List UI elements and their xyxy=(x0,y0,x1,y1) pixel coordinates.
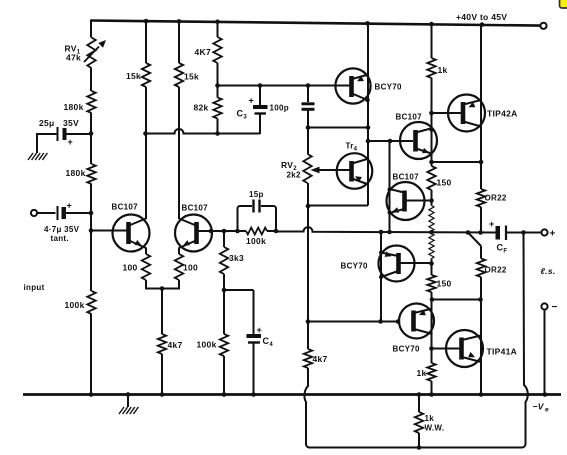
svg-text:1k: 1k xyxy=(438,65,448,75)
svg-text:W.W.: W.W. xyxy=(425,424,445,433)
svg-text:+: + xyxy=(67,201,73,211)
terminal output plus xyxy=(541,229,555,240)
capacitor 15p feedback xyxy=(238,190,277,231)
transistor BC107 driver upper xyxy=(396,113,438,160)
wire OR22 to output node xyxy=(480,207,482,233)
svg-text:47k: 47k xyxy=(66,53,81,63)
svg-text:BC107: BC107 xyxy=(396,113,423,122)
transistor TIP41A output lower xyxy=(446,330,517,367)
svg-text:3k3: 3k3 xyxy=(229,253,244,263)
svg-text:1k: 1k xyxy=(417,368,427,378)
wire BCY70 collector column xyxy=(365,75,370,206)
wire RV1 to 180k xyxy=(90,68,92,91)
wire 25u cap to ground xyxy=(37,133,58,153)
wire BCY70 collector node to output column xyxy=(432,297,483,302)
svg-text:2k2: 2k2 xyxy=(287,171,301,180)
wire RV2 bottom node xyxy=(306,183,311,208)
wire TIP42A base xyxy=(432,112,462,114)
svg-text:180k: 180k xyxy=(64,102,84,112)
svg-text:15k: 15k xyxy=(126,71,141,81)
resistor 100 left xyxy=(123,254,151,280)
svg-text:BC107: BC107 xyxy=(112,203,139,212)
wire 4k7 to 82k node xyxy=(215,63,220,98)
svg-text:OR22: OR22 xyxy=(485,194,507,203)
wire 1k lower to ground rail xyxy=(431,381,433,395)
wire driver emitter to TIP42A collector node xyxy=(432,160,484,165)
svg-text:input: input xyxy=(24,283,45,292)
resistor 150 middle upper xyxy=(429,206,434,232)
wire output to bottom loop xyxy=(524,233,528,445)
potentiometer RV2 2k2 xyxy=(281,154,312,183)
svg-text:25μ: 25μ xyxy=(39,118,55,128)
wire Tr4 emitter node horizontal xyxy=(308,205,368,207)
wire output node diagonal to OR22 lower xyxy=(468,233,481,259)
wire TIP41A base lead xyxy=(432,348,462,350)
wire BC107 base node to lower driver xyxy=(389,141,391,232)
transistor BCY70 first stage xyxy=(335,68,402,103)
wire 1k to TIP42A base node xyxy=(429,78,434,166)
label +40V to 45V xyxy=(456,12,507,22)
wire 100k lower to ground rail xyxy=(223,356,225,395)
wire input node to 100k xyxy=(90,231,92,292)
svg-text:+: + xyxy=(68,137,74,147)
capacitor 4.7u 35V tant input xyxy=(44,201,80,244)
svg-text:e: e xyxy=(545,407,549,414)
resistor 1k lower xyxy=(417,363,436,381)
transistor BCY70 second xyxy=(341,246,415,282)
wire supply to 1k xyxy=(431,23,433,58)
wire 180k junction to input cap junction xyxy=(90,134,92,165)
wire 100k to ground rail xyxy=(90,314,92,395)
wire 100k feedback to output line xyxy=(267,229,278,234)
transistor BC107 driver lower xyxy=(387,173,425,221)
svg-text:BCY70: BCY70 xyxy=(393,345,421,354)
wire BCY70 second base to 150 node xyxy=(399,262,432,264)
wire bias node to BCY70 third base xyxy=(306,319,401,324)
wire 100 left to tail node xyxy=(145,280,147,290)
wire ground rail xyxy=(23,392,561,397)
capacitor CF output xyxy=(489,219,507,255)
svg-text:+: + xyxy=(550,229,556,240)
wire Tr1 emitter to 100R xyxy=(145,248,147,255)
wire output node to BCY70 second xyxy=(380,232,382,322)
svg-text:tant.: tant. xyxy=(51,234,69,243)
svg-text:100k: 100k xyxy=(197,340,217,350)
terminal input xyxy=(31,210,37,216)
wire 3k3 to 100k node xyxy=(222,274,227,334)
wire OR22 lower to TIP41A collector xyxy=(480,277,482,395)
wire 15k left top lead xyxy=(145,20,147,63)
resistor 100k feedback xyxy=(246,228,267,246)
svg-text:1k: 1k xyxy=(425,414,435,423)
wire bottom loop xyxy=(306,444,526,450)
svg-text:100k: 100k xyxy=(65,300,85,310)
capacitor C3 xyxy=(237,86,268,135)
capacitor 25u 35V xyxy=(39,118,79,147)
wire BCY70 third base node to 4k7 xyxy=(307,322,309,350)
wire 150 lower to BCY70 collector node xyxy=(430,292,435,349)
wire +40V supply rail xyxy=(91,19,541,27)
resistor 150 lower xyxy=(427,275,451,292)
wire 25u cap to 180k junction xyxy=(66,133,92,135)
wire input node to Tr1 base xyxy=(91,230,127,232)
wire RV2 bottom to BCY70 third base xyxy=(307,206,309,322)
wire 180k to 25u junction xyxy=(89,113,94,136)
capacitor 100p xyxy=(270,86,315,129)
svg-text:100k: 100k xyxy=(246,236,266,246)
wire BC107 lower base to 150 node xyxy=(405,200,432,202)
resistor 150 middle lower xyxy=(429,234,434,259)
transistor BCY70 third xyxy=(393,304,435,354)
svg-text:+: + xyxy=(249,96,255,106)
wire 150 to BC107 lower base node xyxy=(429,190,434,206)
wire 15k right top lead xyxy=(178,21,180,64)
wire TIP41A base node to 1k xyxy=(429,346,434,363)
svg-text:4K7: 4K7 xyxy=(195,47,212,57)
transistor BC107 input right xyxy=(175,204,212,252)
svg-text:100p: 100p xyxy=(270,104,289,113)
svg-text:15p: 15p xyxy=(249,190,264,199)
wire feedback node to 3k3 xyxy=(223,231,225,247)
wire 4k7 tail to ground rail xyxy=(161,354,163,395)
label input xyxy=(24,283,45,292)
resistor 3k3 xyxy=(220,247,244,274)
wire tail node horizontal xyxy=(145,286,180,291)
label -Ve xyxy=(533,402,550,414)
wire minus terminal to ground rail xyxy=(544,310,546,396)
svg-text:4·7μ 35V: 4·7μ 35V xyxy=(44,225,80,234)
wire 82k to C3 wire xyxy=(217,119,219,135)
ground input bias xyxy=(28,153,47,160)
resistor OR22 upper xyxy=(477,189,507,207)
ground rail symbol xyxy=(119,395,138,415)
svg-text:−: − xyxy=(552,302,558,313)
potentiometer RV1 47k xyxy=(65,38,107,69)
resistor 4k7 tail xyxy=(158,334,183,354)
wire RV1 top lead xyxy=(90,20,92,38)
resistor 1k upper xyxy=(427,58,447,78)
label l.s. xyxy=(541,266,556,276)
wire Tr4 collector node to BC107 base xyxy=(368,139,413,144)
resistor 100 right xyxy=(175,254,198,280)
svg-text:TIP42A: TIP42A xyxy=(487,109,518,119)
wire middle resistor to BCY70 base node xyxy=(429,259,434,276)
wire Tr2 emitter to 100R xyxy=(178,248,180,255)
wire 100 right to tail node xyxy=(178,280,180,290)
svg-text:BCY70: BCY70 xyxy=(375,83,403,92)
svg-text:150: 150 xyxy=(437,178,452,188)
transistor BC107 input left xyxy=(112,203,150,252)
wire 15k-left junction to 82k bottom xyxy=(146,129,220,136)
resistor 1k W.W. xyxy=(415,395,445,448)
svg-text:BC107: BC107 xyxy=(393,173,420,182)
wire supply to TIP42A emitter xyxy=(480,24,482,190)
wire 100p junction to BCY70 collector xyxy=(306,125,368,130)
capacitor C4 xyxy=(247,325,274,395)
svg-text:35V: 35V xyxy=(63,118,79,128)
resistor 15k left xyxy=(126,63,150,87)
wire 15k left to Tr1 collector xyxy=(143,87,148,219)
svg-text:4k7: 4k7 xyxy=(313,354,328,364)
resistor 100k lower xyxy=(197,334,229,356)
wire 100p junction to RV2 xyxy=(307,128,309,155)
wire Tr2 base to feedback node xyxy=(197,229,246,234)
svg-text:TIP41A: TIP41A xyxy=(487,347,518,357)
svg-text:ℓ.s.: ℓ.s. xyxy=(541,266,556,276)
svg-text:−V: −V xyxy=(533,402,545,412)
wire C3 bottom to 82k bottom xyxy=(217,133,260,135)
svg-text:4k7: 4k7 xyxy=(168,340,183,350)
wire 4k7 top lead xyxy=(217,21,219,37)
svg-text:15k: 15k xyxy=(184,72,199,82)
resistor 150 upper xyxy=(427,166,451,190)
transistor Tr4 bias xyxy=(337,142,373,189)
resistor 4k7 bias xyxy=(304,349,328,368)
transistor TIP42A output upper xyxy=(448,95,518,132)
wire RV2 wiper to Tr4 base xyxy=(311,167,351,174)
wire 82k node to BCY70 base xyxy=(218,83,351,88)
svg-text:+40V to 45V: +40V to 45V xyxy=(456,12,507,22)
svg-text:+: + xyxy=(489,219,495,229)
svg-text:82k: 82k xyxy=(194,103,209,113)
svg-text:180k: 180k xyxy=(66,168,86,178)
svg-text:100: 100 xyxy=(183,263,198,273)
wire input terminal to cap xyxy=(37,212,56,214)
terminal +40V supply xyxy=(540,23,546,29)
wire 180k lower to input node xyxy=(89,184,94,233)
wire supply to BCY70 emitter xyxy=(367,23,369,76)
wire feedback output line xyxy=(276,227,496,235)
wire input cap to x91 node xyxy=(66,212,91,214)
svg-text:100: 100 xyxy=(123,263,138,273)
decoration yellow marker xyxy=(560,0,567,8)
svg-text:BC107: BC107 xyxy=(182,204,209,213)
wire 3k3 node to C4 xyxy=(224,290,254,334)
wire CF to output terminal xyxy=(506,230,541,235)
wire 4k7 bias crossing ground rail xyxy=(304,368,308,444)
resistor 100k input xyxy=(65,291,96,314)
svg-text:OR22: OR22 xyxy=(485,266,507,275)
wire 15k right to Tr2 collector xyxy=(178,87,180,219)
resistor 180k lower xyxy=(66,164,96,184)
resistor OR22 lower xyxy=(477,259,507,278)
terminal output minus xyxy=(541,302,557,313)
resistor 15k right xyxy=(175,63,199,87)
svg-text:150: 150 xyxy=(437,279,452,289)
svg-text:+: + xyxy=(257,325,263,335)
wire tail node to 4k7 xyxy=(161,289,163,335)
resistor 4K7 top xyxy=(195,37,222,63)
svg-text:BCY70: BCY70 xyxy=(341,262,369,271)
resistor 82k xyxy=(194,98,222,119)
resistor 180k upper xyxy=(64,91,96,113)
